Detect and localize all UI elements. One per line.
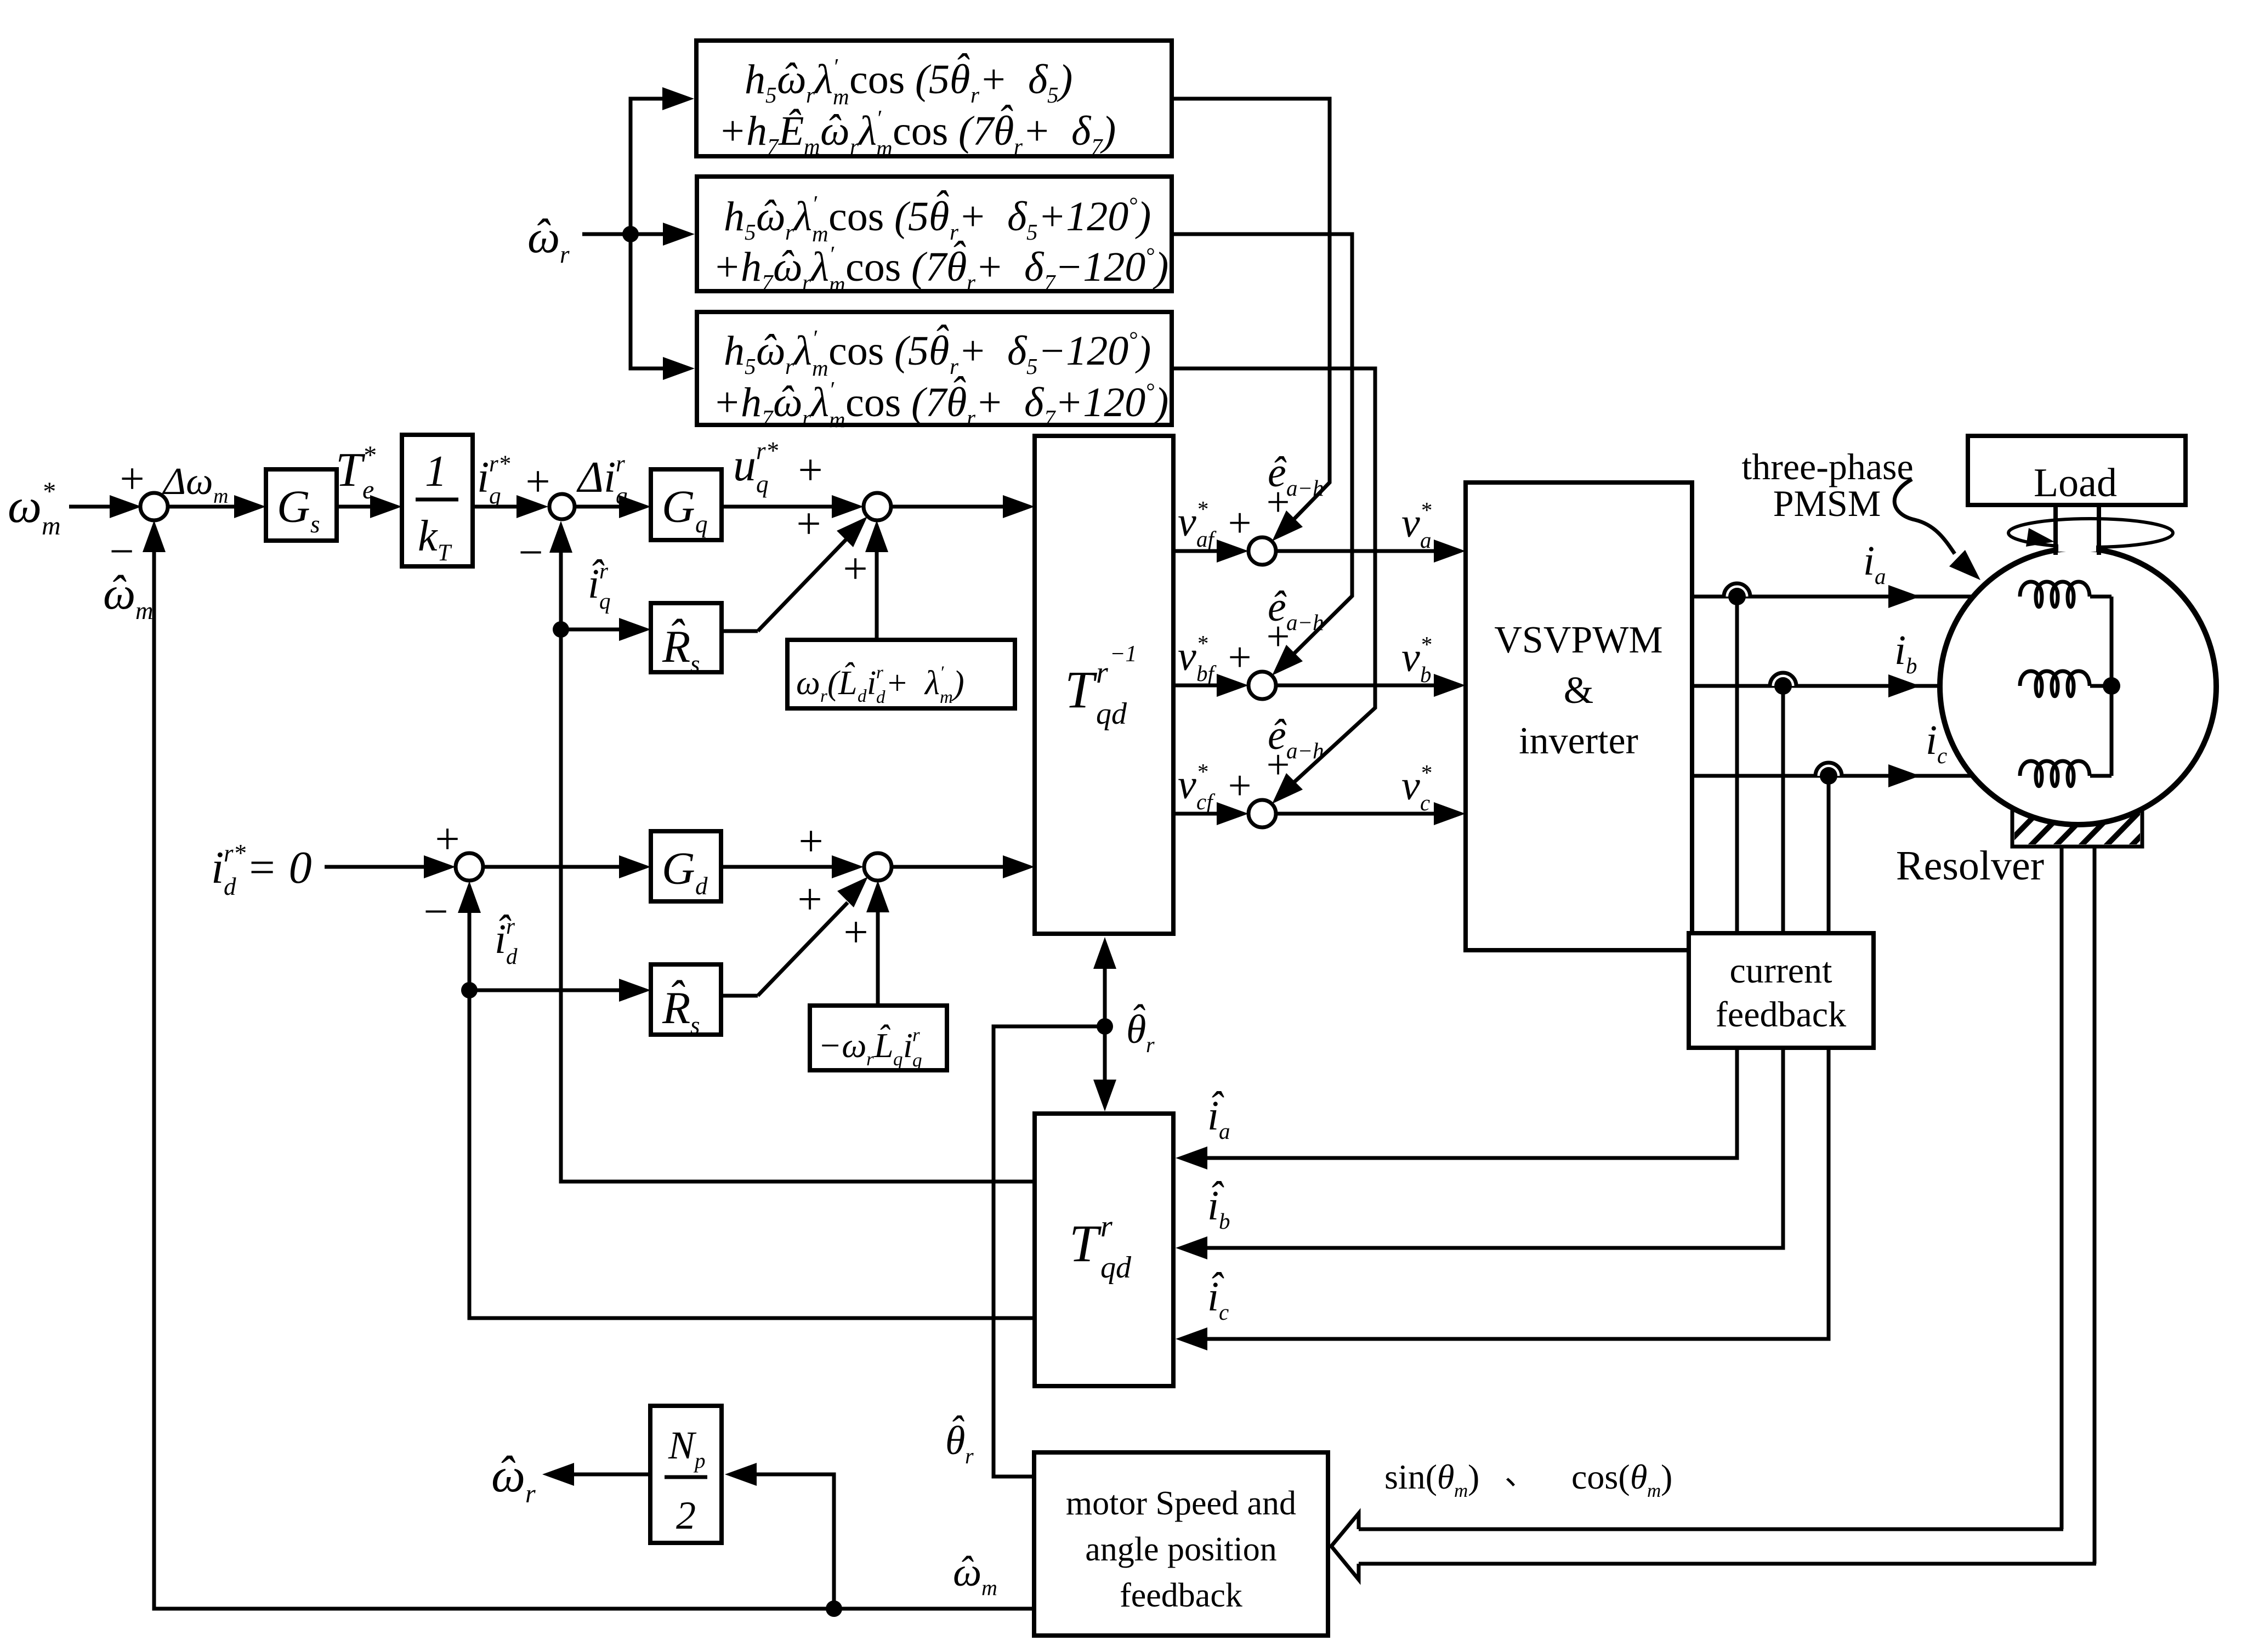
svg-text:ˆ: ˆ <box>761 192 777 238</box>
wire: S5 to Tqd-1 <box>892 855 1035 878</box>
wire: resolver sin-cos bottom line <box>1359 1562 2096 1566</box>
svg-text:cos: cos <box>849 56 905 103</box>
svg-text:ˆ: ˆ <box>958 1548 974 1593</box>
svg-text:r: r <box>970 82 980 107</box>
node: label i_b <box>1894 627 1917 678</box>
svg-text:v: v <box>1401 763 1420 809</box>
svg-text:c: c <box>1420 790 1430 815</box>
summing junction S3 <box>796 446 891 593</box>
svg-text:v: v <box>1178 499 1196 545</box>
svg-text:*: * <box>1196 631 1208 656</box>
three-phase PMSM motor circle <box>1940 548 2216 825</box>
svg-text:Δω: Δω <box>162 461 213 503</box>
svg-text:m: m <box>135 597 154 625</box>
wire: vb* from Sb to VSVPWM <box>1276 674 1466 697</box>
svg-text:T: T <box>1065 660 1098 719</box>
svg-text:+: + <box>843 909 868 957</box>
svg-text:VSVPWM: VSVPWM <box>1494 619 1662 661</box>
summing junction Sc <box>1228 742 1290 827</box>
wire: harmonic B output to Sb <box>1172 234 1352 675</box>
svg-text:+: + <box>1228 634 1252 680</box>
svg-text:b: b <box>1420 662 1432 687</box>
svg-text:7: 7 <box>1044 270 1056 295</box>
wire: coil b to neutral <box>2090 684 2112 688</box>
node: coil phase b <box>2020 671 2090 696</box>
svg-text:= 0: = 0 <box>246 842 312 893</box>
svg-text:*: * <box>42 477 55 506</box>
svg-text:r*: r* <box>489 451 510 477</box>
svg-text:a−h: a−h <box>1286 475 1324 501</box>
svg-text:+: + <box>979 56 1007 103</box>
svg-text:+: + <box>120 455 144 503</box>
svg-text:c: c <box>1937 743 1947 768</box>
node: label vc* <box>1401 760 1432 815</box>
svg-text:ˆ: ˆ <box>497 1447 515 1500</box>
block Tqd r <box>1035 1114 1173 1386</box>
svg-text:h: h <box>741 379 762 425</box>
wire: branch up to Np/2 <box>725 1463 834 1609</box>
node: coil phase a <box>2020 582 2090 607</box>
block harmonic compensator A <box>696 41 1172 161</box>
svg-text:*: * <box>362 441 376 470</box>
svg-text:h: h <box>746 108 767 154</box>
svg-text:cos(: cos( <box>1571 1457 1630 1496</box>
svg-text:inverter: inverter <box>1519 720 1638 762</box>
svg-text:PMSM: PMSM <box>1773 482 1881 524</box>
svg-text:′: ′ <box>829 377 835 402</box>
wire: S2 to Gq <box>576 495 651 518</box>
svg-text:Resolver: Resolver <box>1896 843 2044 889</box>
svg-text:+: + <box>713 379 741 425</box>
wire: phase current ic <box>1692 764 2022 787</box>
svg-text:r: r <box>850 134 859 159</box>
svg-text:+: + <box>435 815 459 864</box>
svg-text:°: ° <box>1145 243 1154 268</box>
svg-text:′: ′ <box>812 191 818 216</box>
wire: resolver output right <box>2093 847 2097 1564</box>
svg-text:cos: cos <box>893 108 948 154</box>
svg-text:r: r <box>802 405 811 430</box>
svg-text:−: − <box>518 529 543 577</box>
block Load <box>1968 436 2186 506</box>
svg-text:r: r <box>802 270 811 295</box>
svg-text:ˆ: ˆ <box>779 242 794 288</box>
wire: harmonic C output to Sc <box>1172 368 1375 804</box>
svg-text:θ: θ <box>1630 1457 1647 1496</box>
svg-text:δ: δ <box>1024 244 1045 290</box>
node: hollow arrow head <box>1331 1513 1359 1580</box>
wire: w_m* input arrow <box>69 495 141 518</box>
svg-text:r: r <box>866 1048 874 1070</box>
node: label i_c <box>1926 717 1947 768</box>
svg-text:a: a <box>1420 527 1432 553</box>
svg-text:°: ° <box>1145 378 1154 404</box>
svg-text:r: r <box>965 1444 974 1468</box>
wire: id feedback up into S4 <box>458 881 1035 1318</box>
svg-text:r: r <box>967 270 976 295</box>
block Rs1 <box>651 603 722 678</box>
node: label theta_r lower <box>945 1408 974 1468</box>
wire: Gd to S5 <box>721 855 864 878</box>
svg-text:feedback: feedback <box>1716 995 1846 1035</box>
svg-text:ˆ: ˆ <box>668 972 685 1023</box>
wire: vc* from Sc to VSVPWM <box>1276 802 1466 825</box>
svg-text:m: m <box>829 271 845 297</box>
svg-text:+120: +120 <box>1055 379 1145 425</box>
block motor speed and angle position feedback <box>1034 1452 1328 1636</box>
svg-text:v: v <box>1401 500 1420 546</box>
node: rotation arrow <box>2008 505 2173 555</box>
svg-text:e: e <box>362 475 374 504</box>
svg-text:h: h <box>741 244 762 290</box>
svg-text:ˆ: ˆ <box>949 1408 964 1453</box>
svg-text:bf: bf <box>1196 661 1217 686</box>
svg-text:a: a <box>1875 564 1886 589</box>
svg-text:r: r <box>560 241 570 268</box>
svg-text:i: i <box>1863 538 1875 584</box>
svg-text:r: r <box>525 1479 536 1508</box>
svg-text:v: v <box>1401 634 1420 680</box>
svg-text:i: i <box>903 1026 913 1065</box>
summing junction S1 <box>109 455 168 576</box>
wire: i_a hat to Tqd <box>1176 1048 1737 1170</box>
wire: pointer squiggle to motor <box>1894 479 1980 580</box>
svg-text:5: 5 <box>908 328 929 374</box>
svg-text:δ: δ <box>1071 108 1092 154</box>
svg-text:+: + <box>796 500 821 548</box>
svg-text:i: i <box>211 842 224 893</box>
wire: phase current ia <box>1692 585 2022 608</box>
wire: Gs to 1/kT <box>337 495 402 518</box>
svg-text:7: 7 <box>767 134 779 159</box>
svg-text:r: r <box>785 354 794 379</box>
svg-text:*: * <box>1420 760 1432 785</box>
node: label i_a hat <box>1207 1083 1230 1144</box>
svg-text:k: k <box>418 512 438 560</box>
node: label uq^r* <box>733 437 779 498</box>
svg-text:T: T <box>1069 1214 1102 1273</box>
svg-text:): ) <box>1135 194 1151 240</box>
svg-text:G: G <box>662 843 695 894</box>
wire: w_r block up to S3 <box>865 520 888 640</box>
svg-text:*: * <box>1420 632 1432 657</box>
svg-text:Load: Load <box>2034 461 2117 506</box>
wire: Gq to S3 <box>722 495 864 518</box>
wire: i_c hat to Tqd <box>1176 1048 1829 1350</box>
svg-text:q: q <box>599 588 611 614</box>
summing junction S5 <box>797 818 892 957</box>
node: neutral junction dot <box>2103 677 2120 695</box>
wire: iq feedback up into S2 <box>549 521 1035 1182</box>
svg-text:d: d <box>506 944 518 969</box>
svg-text:&: & <box>1564 669 1593 712</box>
svg-text:m: m <box>1647 1480 1661 1501</box>
svg-text:m: m <box>812 355 828 381</box>
svg-text:ˆ: ˆ <box>826 106 842 152</box>
svg-text:three-phase: three-phase <box>1741 446 1913 487</box>
svg-text:r: r <box>785 219 794 245</box>
svg-text:7: 7 <box>762 270 774 295</box>
node: current sensor tap c <box>1815 763 1842 785</box>
node: label i_q^r hat <box>588 552 611 614</box>
block Np/2 <box>650 1406 722 1543</box>
node: label theta_r <box>1126 997 1155 1057</box>
node: label w_m hat lower <box>953 1548 997 1600</box>
svg-text:): ) <box>1153 379 1168 425</box>
svg-text:ˆ: ˆ <box>842 656 855 694</box>
svg-text:Δi: Δi <box>576 453 616 502</box>
svg-text:′: ′ <box>829 241 835 266</box>
svg-text:a: a <box>1219 1119 1230 1144</box>
svg-text:q: q <box>489 483 501 509</box>
wire: S4 to Gd <box>484 855 651 878</box>
svg-text:+: + <box>1228 500 1252 546</box>
summing junction Sb <box>1228 614 1290 699</box>
wire: w_r hat output <box>542 1463 650 1486</box>
svg-text:d: d <box>695 872 708 900</box>
svg-text:λ: λ <box>858 108 877 154</box>
svg-text:ˆ: ˆ <box>950 233 966 279</box>
svg-text:m: m <box>829 407 845 432</box>
svg-text:u: u <box>733 440 756 491</box>
svg-text:5: 5 <box>765 82 777 107</box>
svg-text:r*: r* <box>224 839 246 867</box>
svg-text:r: r <box>806 82 815 107</box>
wire: sensor c down to current feedback <box>1827 776 1831 933</box>
svg-text:r: r <box>876 663 883 683</box>
wire: S3 to Tqd-1 <box>891 495 1035 518</box>
svg-text:r: r <box>1100 1210 1113 1244</box>
svg-text:cos: cos <box>828 328 884 374</box>
svg-text:i: i <box>477 453 489 502</box>
svg-text:qd: qd <box>1100 1251 1132 1285</box>
wire: va* from Sa to VSVPWM <box>1276 540 1466 563</box>
node: label i_b hat <box>1207 1173 1230 1234</box>
wire: shaft left <box>2053 505 2058 555</box>
svg-text:m: m <box>42 512 61 541</box>
block 1/kT <box>402 435 473 566</box>
svg-text:m: m <box>876 135 893 161</box>
node: label Te* <box>336 441 376 504</box>
wire: w_r input with branches <box>582 87 695 380</box>
svg-text:d: d <box>224 873 236 900</box>
svg-text:′: ′ <box>876 105 882 130</box>
svg-text:): ) <box>1100 108 1116 154</box>
node: label sin cos theta_m <box>1384 1457 1672 1501</box>
node: theta_r junction dot <box>1097 1018 1113 1035</box>
svg-text:ˆ: ˆ <box>877 1018 890 1057</box>
block w_r(Ld id + lm) <box>787 640 1015 708</box>
block Rs2 <box>651 964 721 1039</box>
svg-text:h: h <box>724 328 745 374</box>
svg-text:δ: δ <box>1024 379 1045 425</box>
svg-text:m: m <box>981 1575 997 1600</box>
node: label w_r hat input <box>527 210 570 268</box>
wire: branch to Rs1 <box>561 618 651 641</box>
wire: Rs1 diagonal to S3 <box>722 516 867 631</box>
svg-text:r: r <box>1014 134 1023 159</box>
svg-text:5: 5 <box>929 56 950 103</box>
wire: neutral vertical <box>2110 597 2114 776</box>
svg-text:d: d <box>858 686 867 706</box>
summing junction S2 <box>518 458 575 577</box>
svg-text:ˆ: ˆ <box>109 566 127 617</box>
svg-text:m: m <box>213 485 228 508</box>
wire: harmonic A output to Sa <box>1171 99 1330 541</box>
wire: S1 to Gs <box>168 495 266 518</box>
svg-text:b: b <box>1906 653 1917 678</box>
svg-text:+: + <box>525 458 550 506</box>
svg-text:r*: r* <box>756 437 779 464</box>
svg-text:r: r <box>1096 656 1108 690</box>
svg-text:ˆ: ˆ <box>782 55 798 101</box>
svg-text:*: * <box>1196 496 1208 521</box>
svg-text:+: + <box>958 328 986 374</box>
svg-text:): ) <box>951 665 964 702</box>
wire: branch to Rs2 <box>469 979 651 1002</box>
svg-text:λ: λ <box>924 665 940 702</box>
svg-text:7: 7 <box>926 244 948 290</box>
svg-text:δ: δ <box>1007 194 1028 240</box>
svg-text:s: s <box>690 650 700 678</box>
node: label three-phase PMSM <box>1741 446 1913 524</box>
svg-text:a−h: a−h <box>1286 610 1324 635</box>
svg-text:ˆ: ˆ <box>1271 449 1287 495</box>
wire: coil c to neutral <box>2090 774 2112 778</box>
svg-text:5: 5 <box>1047 82 1059 107</box>
node: resolver hatched base <box>1998 802 2175 853</box>
wire: -wLq block up to S5 <box>866 881 889 1006</box>
node: current sensor tap b <box>1770 673 1796 695</box>
block harmonic compensator B <box>697 177 1172 297</box>
svg-text:): ) <box>1057 56 1072 103</box>
wire: w_m feedback to S1 <box>143 520 1034 1609</box>
svg-text:7: 7 <box>1044 405 1056 430</box>
svg-text:m: m <box>1454 1480 1468 1501</box>
svg-text:−120: −120 <box>1038 328 1128 374</box>
svg-text:r: r <box>967 405 976 430</box>
svg-text:cos: cos <box>845 244 901 290</box>
svg-text:s: s <box>310 510 320 538</box>
svg-text:af: af <box>1196 526 1217 552</box>
svg-text:λ: λ <box>810 379 829 425</box>
svg-text:5: 5 <box>1026 354 1038 379</box>
node: label iq^r* <box>477 451 510 509</box>
svg-text:+: + <box>798 818 823 866</box>
svg-text:1: 1 <box>425 447 447 496</box>
node: label e_a-h hat c <box>1268 711 1324 763</box>
svg-text:ω: ω <box>8 480 42 533</box>
block Gs <box>266 469 337 541</box>
svg-text:): ) <box>1153 244 1168 290</box>
wire: vcf* from Tqd-1 to Sc <box>1173 802 1248 825</box>
svg-text:i: i <box>1894 627 1906 673</box>
svg-text:+: + <box>1023 108 1051 154</box>
block Gq <box>651 469 722 540</box>
svg-text:λ: λ <box>793 194 812 240</box>
node: input label w_m* <box>8 477 61 541</box>
svg-text:′: ′ <box>812 325 818 350</box>
node: label vbf* <box>1178 631 1217 686</box>
svg-text:7: 7 <box>1091 134 1103 159</box>
svg-text:c: c <box>1219 1299 1229 1325</box>
wire: id* input <box>325 855 456 878</box>
svg-text:a−h: a−h <box>1286 738 1324 763</box>
svg-text:+: + <box>975 379 1003 425</box>
node: label id^r hat <box>495 907 518 969</box>
svg-text:λ: λ <box>810 244 829 290</box>
node: junction dot on id feedback <box>461 982 478 998</box>
svg-text:): ) <box>1661 1457 1672 1496</box>
summing junction Sa <box>1228 479 1290 565</box>
svg-text:7: 7 <box>762 405 774 430</box>
svg-text:5: 5 <box>908 194 929 240</box>
svg-text:+: + <box>713 244 741 290</box>
svg-text:、: 、 <box>1505 1458 1535 1492</box>
svg-text:ˆ: ˆ <box>954 46 970 92</box>
svg-text:λ: λ <box>793 328 812 374</box>
svg-text:ˆ: ˆ <box>668 610 685 661</box>
node: coil phase c <box>2020 761 2090 786</box>
wire: i_b hat to Tqd <box>1176 1048 1783 1259</box>
svg-text:δ: δ <box>1028 56 1048 103</box>
svg-text:m: m <box>804 134 820 159</box>
summing junction S4 <box>423 815 483 936</box>
svg-text:ˆ: ˆ <box>1271 583 1287 629</box>
block VSVPWM inverter <box>1466 482 1692 950</box>
node: label w_m hat left <box>103 566 154 625</box>
svg-text:current: current <box>1730 951 1832 991</box>
svg-text:r: r <box>820 686 827 706</box>
block current feedback <box>1689 933 1874 1048</box>
svg-text:N: N <box>668 1423 697 1467</box>
node: label Resolver <box>1896 843 2044 889</box>
svg-text:+120: +120 <box>1038 194 1128 240</box>
svg-text:+: + <box>843 545 867 593</box>
svg-text:q: q <box>756 470 769 498</box>
svg-text:q: q <box>912 1049 922 1071</box>
svg-text:−1: −1 <box>1110 642 1137 667</box>
svg-text:+: + <box>797 876 822 924</box>
node: label di_q^r <box>576 451 628 509</box>
svg-text:i: i <box>1926 717 1937 763</box>
svg-text:q: q <box>893 1048 903 1070</box>
node: junction dot w_m branch <box>826 1600 842 1617</box>
node: label dw_m <box>162 461 228 508</box>
node: label i_a <box>1863 538 1886 589</box>
block Tqd r-1 <box>1035 436 1173 934</box>
svg-text:2: 2 <box>676 1494 696 1537</box>
svg-text:′: ′ <box>940 663 944 683</box>
wire: 1/kT to S2 <box>473 495 548 518</box>
wire: shaft right <box>2097 505 2101 555</box>
node: current sensor tap a <box>1724 583 1750 605</box>
svg-text:7: 7 <box>973 108 995 154</box>
svg-text:h: h <box>745 56 765 103</box>
svg-text:motor Speed and: motor Speed and <box>1066 1485 1296 1522</box>
svg-text:δ: δ <box>1007 328 1028 374</box>
svg-text:λ: λ <box>814 56 833 103</box>
node: label va* <box>1401 497 1432 553</box>
svg-text:h: h <box>724 194 745 240</box>
svg-text:r: r <box>616 451 625 477</box>
node: label vcf* <box>1178 759 1216 814</box>
wire: phase current ib <box>1692 674 2022 697</box>
svg-text:m: m <box>812 221 828 246</box>
wire: coil a to neutral <box>2090 595 2112 599</box>
svg-text:*: * <box>1420 497 1432 523</box>
svg-text:sin(: sin( <box>1384 1457 1437 1496</box>
